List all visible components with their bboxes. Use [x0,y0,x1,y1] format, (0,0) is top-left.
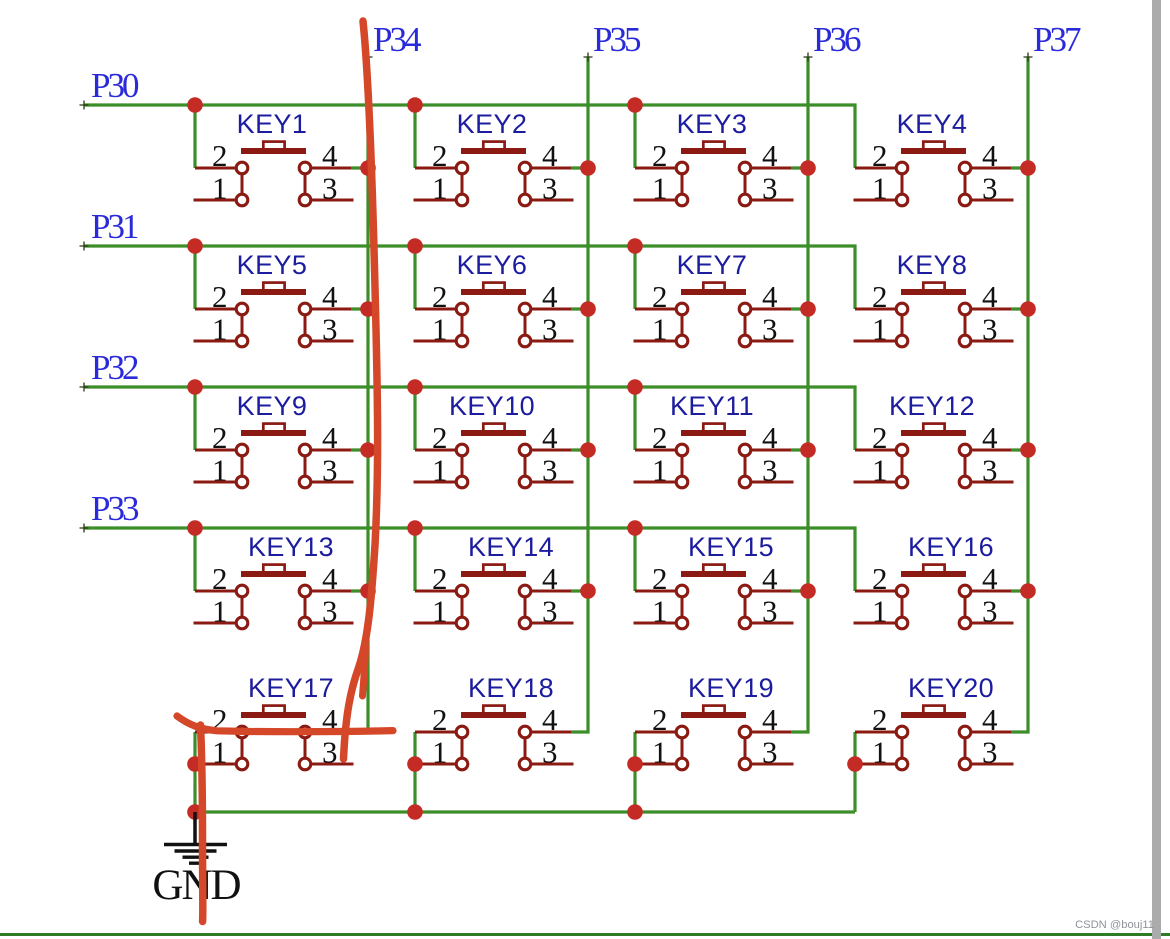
svg-text:CSDN @bouj11: CSDN @bouj11 [1075,919,1154,931]
svg-text:KEY5: KEY5 [237,250,308,280]
svg-text:KEY18: KEY18 [468,673,554,703]
svg-text:P33: P33 [91,489,139,528]
svg-text:P36: P36 [813,20,861,59]
svg-text:KEY20: KEY20 [908,673,994,703]
svg-text:KEY3: KEY3 [677,109,748,139]
svg-text:KEY13: KEY13 [248,532,334,562]
svg-text:KEY16: KEY16 [908,532,994,562]
svg-text:KEY6: KEY6 [457,250,528,280]
svg-text:KEY4: KEY4 [897,109,968,139]
svg-text:KEY10: KEY10 [449,391,535,421]
svg-text:KEY2: KEY2 [457,109,528,139]
svg-text:KEY11: KEY11 [670,391,754,421]
svg-text:KEY17: KEY17 [248,673,334,703]
svg-text:KEY7: KEY7 [677,250,748,280]
svg-text:P37: P37 [1033,20,1081,59]
svg-text:KEY15: KEY15 [688,532,774,562]
svg-text:P30: P30 [91,66,139,105]
svg-text:KEY9: KEY9 [237,391,308,421]
svg-text:KEY19: KEY19 [688,673,774,703]
svg-text:P34: P34 [373,20,421,59]
svg-text:GND: GND [152,862,240,909]
svg-text:KEY12: KEY12 [889,391,975,421]
svg-text:P31: P31 [91,207,138,246]
svg-text:KEY14: KEY14 [468,532,554,562]
svg-text:P32: P32 [91,348,138,387]
svg-text:P35: P35 [593,20,641,59]
svg-text:KEY1: KEY1 [237,109,308,139]
svg-text:KEY8: KEY8 [897,250,968,280]
